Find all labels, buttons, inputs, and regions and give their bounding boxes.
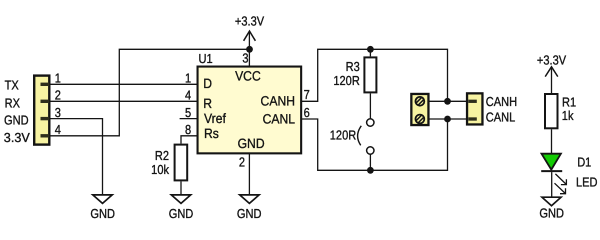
svg-text:R: R	[203, 96, 212, 111]
svg-text:LED: LED	[576, 175, 598, 190]
svg-text:GND: GND	[238, 136, 265, 151]
svg-text:CANH: CANH	[261, 93, 295, 108]
svg-text:CANL: CANL	[486, 109, 515, 124]
svg-text:1: 1	[185, 71, 191, 86]
svg-text:2: 2	[55, 88, 61, 103]
svg-text:+3.3V: +3.3V	[235, 14, 264, 29]
svg-text:1: 1	[55, 71, 61, 86]
svg-text:GND: GND	[237, 206, 262, 221]
svg-text:3: 3	[242, 50, 248, 65]
svg-text:CANH: CANH	[486, 94, 517, 109]
svg-text:D1: D1	[577, 155, 591, 170]
svg-text:1k: 1k	[562, 108, 574, 123]
svg-text:TX: TX	[5, 78, 19, 93]
svg-text:120R: 120R	[330, 127, 356, 142]
svg-text:GND: GND	[4, 113, 29, 128]
svg-text:VCC: VCC	[235, 69, 261, 84]
svg-text:3.3V: 3.3V	[4, 130, 30, 145]
svg-text:5: 5	[185, 105, 191, 120]
svg-text:7: 7	[304, 87, 310, 102]
svg-text:+3.3V: +3.3V	[537, 53, 566, 68]
svg-text:3: 3	[55, 105, 61, 120]
svg-text:GND: GND	[539, 206, 564, 221]
svg-text:GND: GND	[90, 206, 115, 221]
svg-text:R2: R2	[155, 148, 169, 163]
svg-text:U1: U1	[199, 51, 213, 66]
svg-text:RX: RX	[5, 95, 21, 110]
svg-text:120R: 120R	[333, 73, 359, 88]
svg-text:8: 8	[185, 122, 191, 137]
svg-text:4: 4	[55, 122, 61, 137]
svg-text:6: 6	[304, 105, 310, 120]
svg-text:R3: R3	[346, 59, 360, 74]
svg-text:Rs: Rs	[204, 126, 219, 141]
svg-text:2: 2	[239, 155, 245, 170]
svg-text:D: D	[203, 76, 212, 91]
svg-text:CANL: CANL	[263, 111, 296, 126]
svg-text:Vref: Vref	[204, 111, 226, 126]
svg-text:GND: GND	[169, 206, 194, 221]
svg-text:4: 4	[185, 88, 191, 103]
svg-text:10k: 10k	[151, 162, 169, 177]
